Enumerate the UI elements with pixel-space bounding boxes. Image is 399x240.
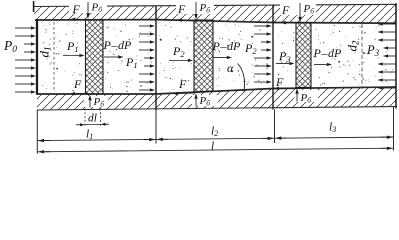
- svg-text:d1: d1: [37, 47, 53, 58]
- svg-text:dP: dP: [118, 38, 132, 52]
- bar top edge: [35, 20, 396, 24]
- svg-text:P: P: [313, 46, 322, 60]
- svg-text:l2: l2: [211, 126, 218, 139]
- lateral pressure Pb on bottom of slice 2: [195, 99, 197, 107]
- lateral pressure Pb on bottom of slice 3: [296, 94, 298, 102]
- svg-text:F: F: [281, 3, 290, 17]
- reaction pressure P3 arrows at right wall: [378, 22, 396, 89]
- svg-text:dl: dl: [88, 113, 97, 125]
- svg-text:P1: P1: [125, 55, 138, 70]
- svg-text:P2: P2: [244, 41, 257, 56]
- svg-text:l3: l3: [329, 122, 336, 135]
- section boundary 1: [155, 6, 157, 110]
- svg-text:F: F: [178, 77, 187, 91]
- svg-text:F: F: [275, 75, 284, 89]
- pressure arrows at section boundary 1: [139, 24, 155, 91]
- svg-text:α: α: [227, 61, 234, 75]
- dl dimension line with outside arrows: [76, 124, 80, 126]
- elementary slice 1 (cross-hatched): [86, 20, 104, 94]
- extension line at boundary 2: [274, 110, 276, 144]
- lateral pressure Pb on bottom of slice 1: [89, 100, 91, 107]
- section boundary 2: [272, 5, 274, 109]
- svg-text:dP: dP: [227, 39, 241, 53]
- elementary slice 3 (cross-hatched): [296, 23, 311, 88]
- left wall face: [36, 19, 38, 95]
- lateral pressure Pb on top of slice 2: [195, 2, 197, 14]
- label clearings in hatched walls: [69, 1, 107, 13]
- pressure arrows at section boundary 2: [254, 24, 272, 83]
- svg-text:F: F: [73, 77, 82, 91]
- svg-text:P3: P3: [366, 43, 380, 58]
- extension line at right end: [393, 107, 395, 151]
- bottom wall hatching: [37, 87, 397, 110]
- lateral pressure Pb on top of slice 3: [299, 3, 301, 17]
- top wall left end tick: [33, 1, 35, 12]
- svg-text:dP: dP: [328, 46, 342, 60]
- diameter line d2 (dashed): [361, 24, 363, 89]
- segments dimension line: [37, 137, 393, 141]
- overall length dimension line: [37, 148, 393, 152]
- extension line at boundary 1: [155, 110, 157, 144]
- concrete stipple texture of bar: [42, 23, 393, 92]
- right wall face: [395, 3, 397, 108]
- lateral pressure Pb on top of slice 1: [87, 2, 89, 13]
- diameter line d1 (dashed): [53, 22, 55, 92]
- svg-text:P2: P2: [172, 44, 185, 59]
- extension line at left wall: [36, 110, 38, 154]
- dimension arrows on segment line: [44, 140, 50, 142]
- bottom wall lower boundary line: [37, 107, 397, 111]
- bar bottom edge: [37, 87, 396, 94]
- svg-text:P: P: [103, 38, 112, 52]
- elementary slice 2 (cross-hatched): [194, 20, 213, 92]
- top wall hatching: [33, 4, 397, 23]
- top wall boundary line: [33, 4, 397, 6]
- dl extension lines (dashed): [84, 109, 86, 127]
- svg-text:d2: d2: [345, 40, 361, 52]
- applied pressure P0 arrows at left wall: [15, 26, 36, 93]
- svg-text:l: l: [211, 141, 214, 153]
- svg-text:P0: P0: [3, 38, 17, 55]
- svg-text:F: F: [72, 2, 81, 16]
- svg-text:P3: P3: [278, 49, 291, 64]
- svg-text:P: P: [212, 39, 221, 53]
- svg-text:F: F: [177, 2, 186, 16]
- svg-text:P1: P1: [66, 39, 79, 54]
